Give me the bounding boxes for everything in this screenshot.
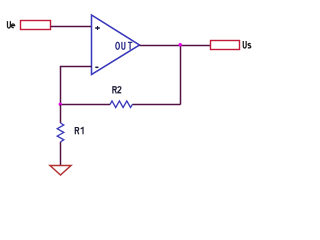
junction output node — [179, 43, 182, 46]
label R1 — [75, 128, 83, 135]
wire op-amp output to Us port — [140, 45, 211, 47]
pin label OUT — [116, 42, 132, 50]
resistor R2 — [110, 101, 132, 108]
node Us label — [243, 41, 251, 48]
wire feedback node down to R1 — [60, 105, 62, 124]
pin - (inverting input marker) — [95, 66, 98, 68]
wire Ue port to op-amp + input — [51, 26, 92, 28]
label R2 — [113, 87, 121, 94]
op-amp U1 body — [92, 15, 140, 75]
wire feedback node up to inverting input — [61, 67, 92, 105]
wire R1 to ground — [60, 142, 62, 166]
resistor R1 — [57, 123, 64, 142]
junction feedback node — [59, 103, 62, 106]
wire output node down to feedback — [180, 46, 182, 105]
node Ue label — [7, 21, 14, 28]
wire feedback right segment — [132, 104, 180, 106]
wire feedback left segment — [61, 104, 111, 106]
pin + (non-inverting input marker) — [95, 26, 100, 30]
port terminal Ue — [21, 21, 51, 30]
port terminal Us — [211, 41, 240, 50]
ground — [50, 166, 71, 176]
